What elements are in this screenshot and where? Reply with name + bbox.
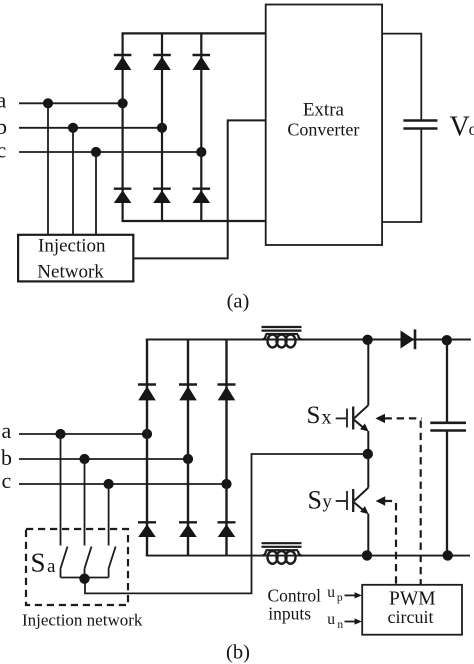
switch blade 2 (85, 547, 92, 578)
wire phase a (b) (19, 433, 147, 435)
injection network box U2 (18, 235, 133, 283)
injection network dashed box (26, 529, 128, 605)
wire rectifier leg 1 (a) (121, 33, 123, 221)
extra converter box U1 (266, 5, 382, 246)
wire rectifier leg 1 (b) (146, 340, 148, 556)
svg-text:a: a (0, 88, 7, 113)
svg-text:(b): (b) (226, 642, 250, 664)
junction dot b leg (b) (183, 454, 193, 464)
svg-text:x: x (322, 406, 332, 428)
diode D8 (179, 385, 197, 401)
wire injection box to converter (a) (133, 120, 265, 258)
wire rectifier leg 3 (a) (200, 33, 202, 221)
svg-text:circuit: circuit (388, 607, 434, 627)
svg-text:S: S (308, 486, 322, 515)
svg-text:a: a (2, 418, 12, 443)
svg-text:b: b (0, 114, 7, 139)
label up (327, 584, 343, 604)
junction dot a tap (b) (55, 429, 65, 439)
svg-text:Control: Control (268, 586, 322, 606)
wire bottom dc bus (a) (122, 220, 266, 222)
diode D7 (138, 385, 156, 401)
svg-text:Extra: Extra (303, 100, 345, 121)
svg-text:(a): (a) (227, 290, 250, 312)
diode D10 (138, 522, 156, 537)
svg-text:u: u (327, 611, 335, 628)
wire a tap to switch 1 (b) (60, 434, 62, 546)
junction dot bottom bus at Sy emitter (362, 550, 372, 560)
wire converter to cap bottom (a) (382, 128, 421, 222)
transistor Q2 Sy (336, 454, 369, 555)
diode D2 (153, 55, 171, 70)
junction dot b tap (a) (68, 123, 78, 133)
junction dot a leg (b) (142, 429, 152, 439)
wire c tap to switch 3 (b) (108, 484, 110, 546)
wire top dc bus (b) (146, 339, 471, 341)
svg-text:a: a (47, 556, 56, 577)
svg-text:V: V (450, 111, 470, 142)
svg-text:Injection: Injection (38, 236, 106, 257)
wire a tap to injection box (a) (47, 103, 49, 235)
junction dot top bus at Sx collector (362, 335, 372, 345)
wire rectifier leg 3 (b) (225, 340, 227, 556)
wire bottom dc bus (b) (146, 555, 470, 557)
label Sx (307, 402, 332, 429)
pwm circuit box U3 (362, 585, 462, 635)
wire c tap to injection box (a) (95, 152, 97, 235)
junction dot a leg (a) (118, 98, 128, 108)
svg-text:c: c (2, 468, 12, 493)
label un (327, 611, 343, 631)
svg-text:y: y (323, 492, 333, 512)
capacitor C2 (430, 340, 466, 555)
svg-text:S: S (307, 402, 321, 429)
svg-text:p: p (337, 592, 343, 604)
svg-text:Converter: Converter (287, 119, 359, 139)
svg-text:o: o (469, 119, 474, 139)
svg-text:inputs: inputs (268, 604, 311, 624)
wire midpoint to injection network (b) (85, 454, 368, 593)
wire phase c (a) (19, 151, 201, 153)
wire switch common (b) (61, 577, 109, 579)
junction dot Sx emitter / Sy collector (363, 449, 373, 459)
label Vo (450, 111, 474, 142)
junction dot c tap (a) (91, 147, 101, 157)
switch blade 3 (109, 547, 116, 578)
dashed control line to Sx (375, 414, 421, 585)
wire un arrow (345, 618, 362, 624)
diode D12 (218, 522, 236, 537)
wire phase c (b) (19, 483, 227, 485)
inductor L2 bottom (262, 543, 303, 564)
wire up arrow (345, 592, 362, 598)
junction dot c leg (b) (221, 479, 231, 489)
junction dot top bus at cap (442, 335, 452, 345)
dashed control line to Sy (376, 496, 397, 585)
junction dot bottom bus at cap (443, 550, 453, 560)
label Sa (31, 548, 57, 578)
diode D11 (179, 522, 197, 537)
diode D5 (153, 189, 171, 203)
wire rectifier leg 2 (b) (187, 340, 189, 556)
svg-text:Injection network: Injection network (22, 611, 143, 630)
capacitor C1 (403, 121, 437, 129)
switch blade 1 (61, 547, 68, 578)
label Sy (308, 486, 333, 515)
diode D1 (114, 55, 132, 70)
label control inputs (268, 586, 322, 624)
junction dot c leg (a) (196, 147, 206, 157)
wire b tap to switch 2 (b) (84, 459, 86, 546)
junction dot c tap (b) (104, 479, 114, 489)
junction dot switch common (79, 574, 89, 584)
diode D13 series (401, 329, 416, 349)
wire phase a (a) (19, 102, 123, 104)
svg-text:S: S (31, 548, 46, 578)
diode D3 (193, 55, 211, 70)
diode D6 (193, 189, 211, 203)
wire rectifier leg 2 (a) (161, 33, 163, 221)
wire top dc bus (a) (122, 32, 266, 34)
svg-text:n: n (337, 619, 343, 631)
wire converter to cap top (a) (382, 34, 421, 121)
wire phase b (a) (19, 127, 162, 129)
diode D9 (218, 385, 236, 401)
diode D4 (114, 189, 132, 203)
junction dot b tap (b) (79, 454, 89, 464)
svg-text:b: b (1, 445, 12, 470)
wire b tap to injection box (a) (72, 128, 74, 235)
junction dot a tap (a) (43, 98, 53, 108)
junction dot b leg (a) (157, 123, 167, 133)
svg-text:u: u (327, 584, 335, 601)
wire phase b (b) (19, 458, 188, 460)
transistor Q1 Sx (336, 340, 369, 454)
svg-text:Network: Network (37, 261, 104, 282)
inductor L1 top (262, 327, 303, 347)
svg-text:c: c (0, 138, 7, 163)
